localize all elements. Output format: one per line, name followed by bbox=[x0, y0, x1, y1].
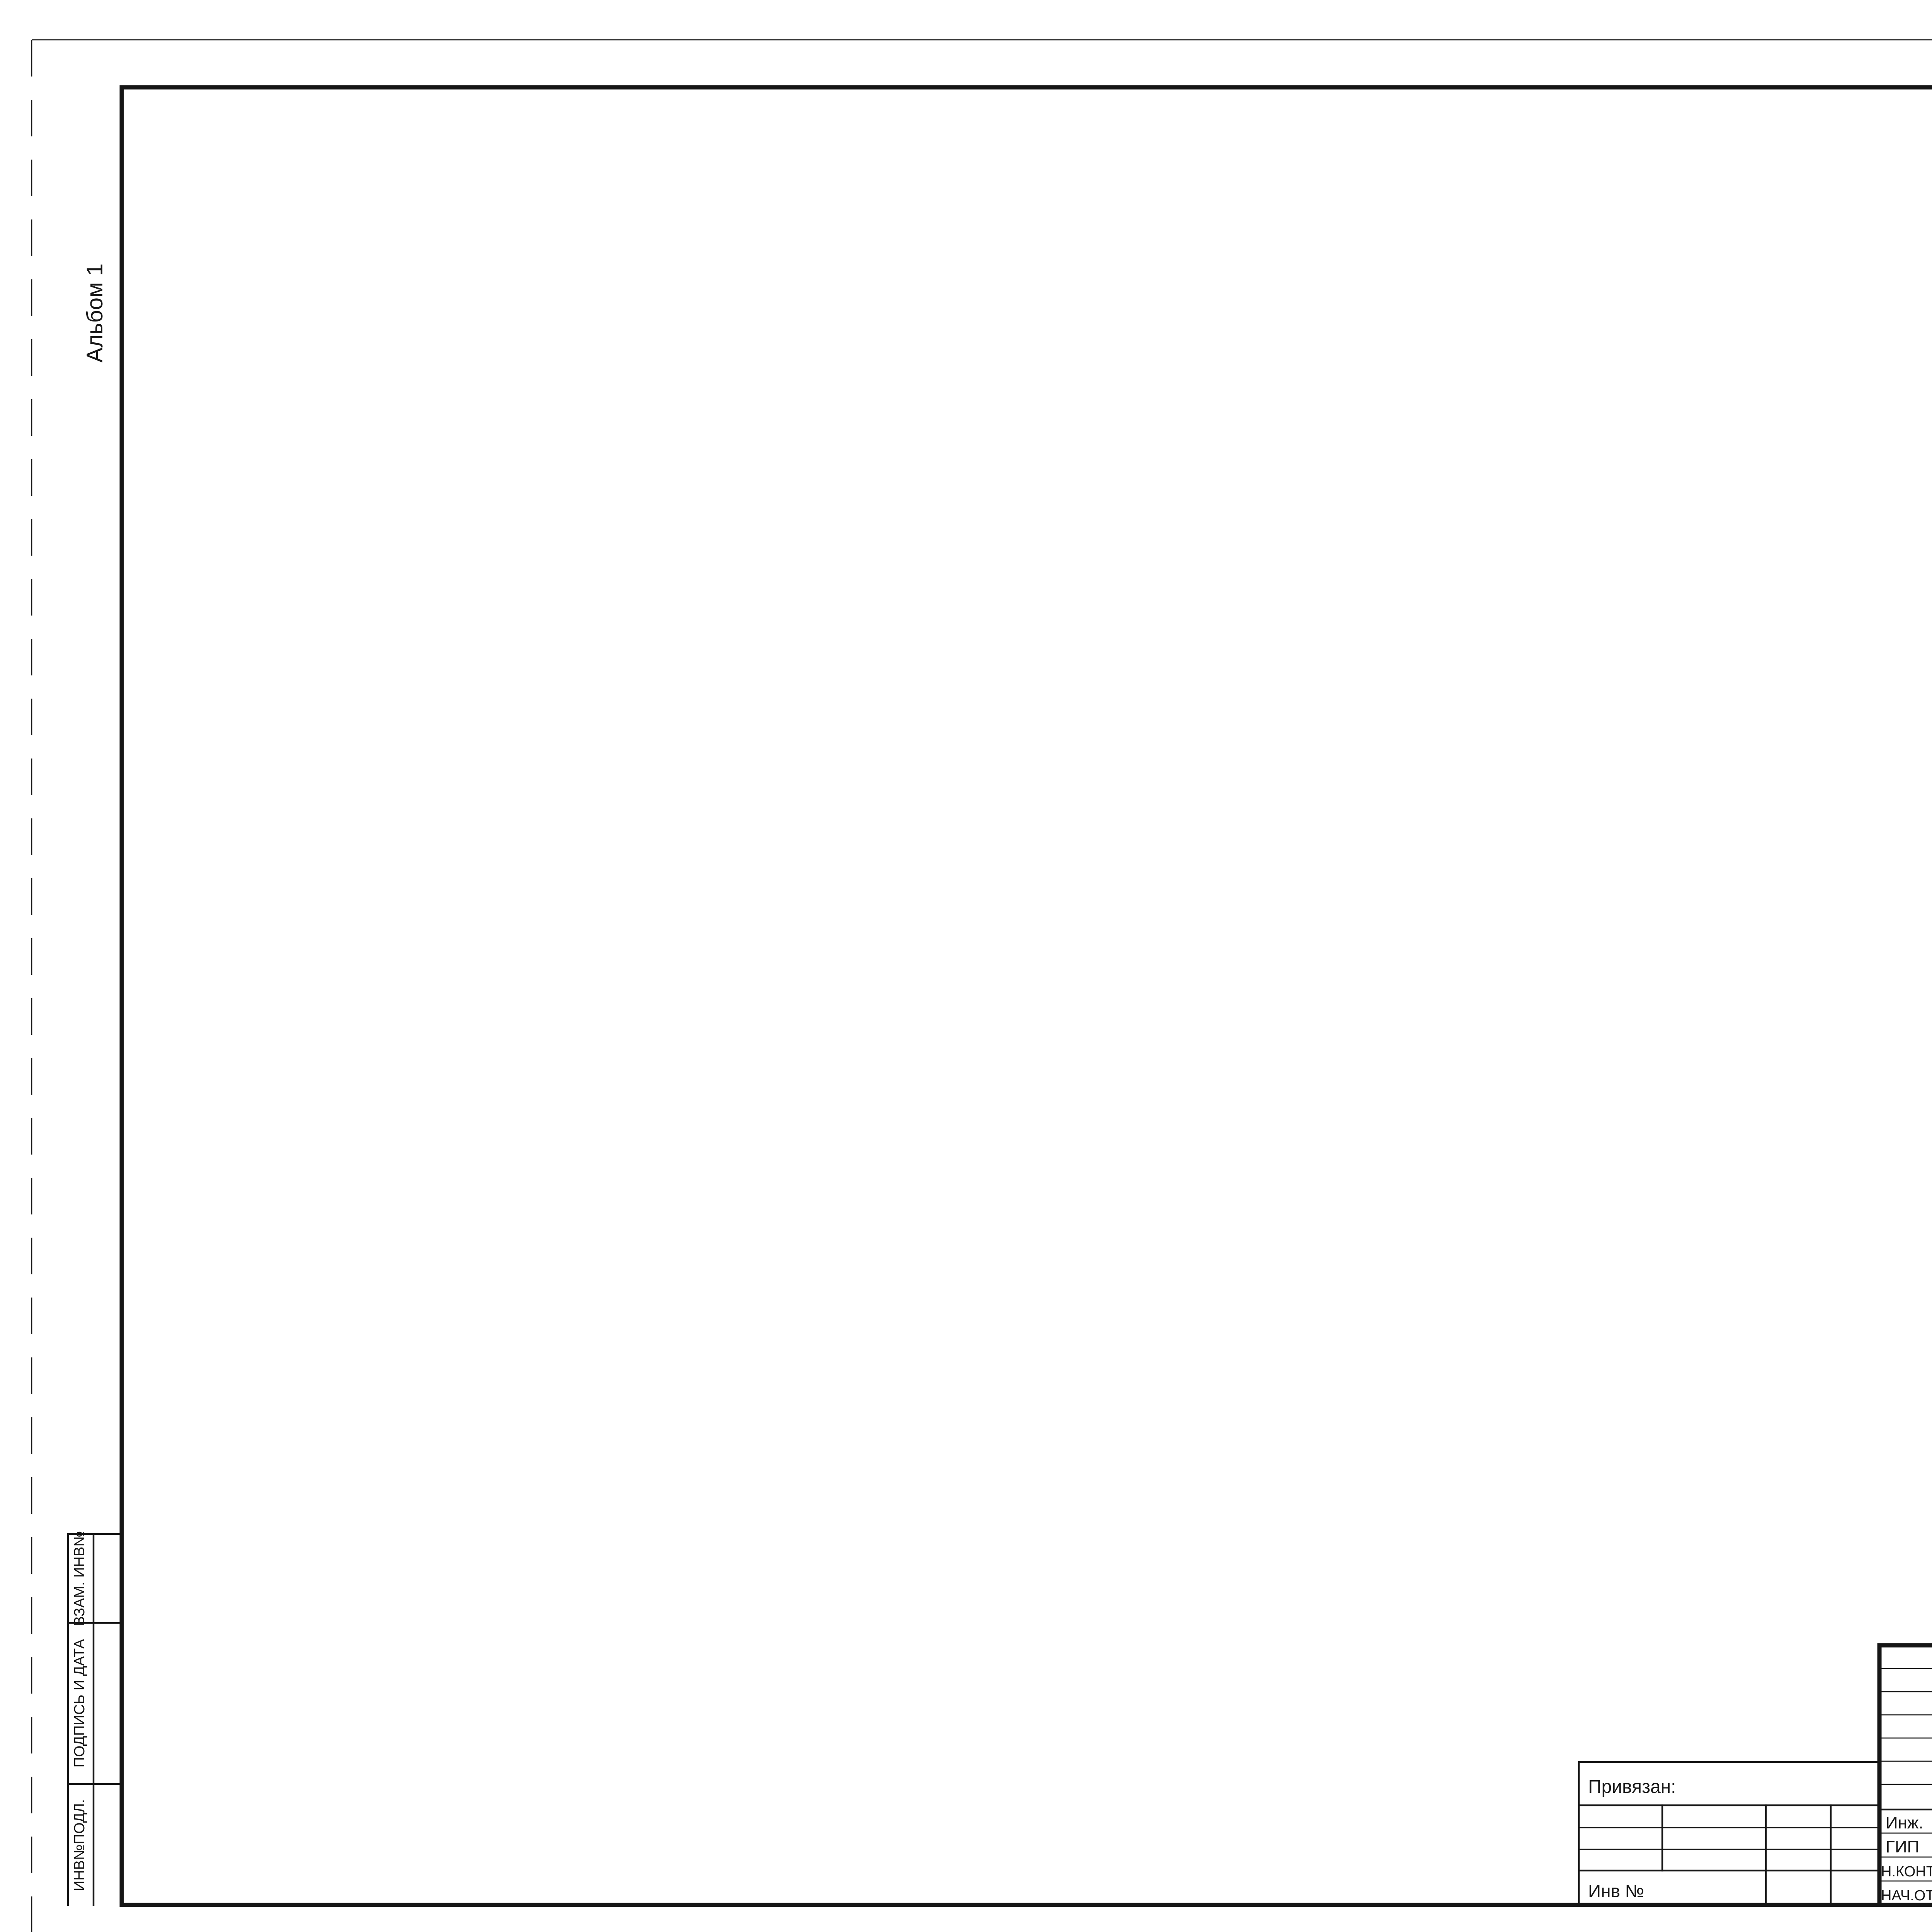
left margin stamp strips bbox=[68, 1531, 122, 1905]
svg-text:ГИП: ГИП bbox=[1886, 1837, 1919, 1856]
svg-text:Н.КОНТР.: Н.КОНТР. bbox=[1881, 1864, 1932, 1880]
privyazan block bbox=[1579, 1762, 1879, 1905]
svg-text:Привязан:: Привязан: bbox=[1588, 1777, 1676, 1797]
svg-text:Альбом 1: Альбом 1 bbox=[82, 264, 107, 362]
title block outer bbox=[1879, 1645, 1932, 1905]
svg-text:ИНВ№ПОДЛ.: ИНВ№ПОДЛ. bbox=[71, 1799, 88, 1891]
svg-text:Инж.: Инж. bbox=[1886, 1813, 1923, 1832]
svg-text:Инв №: Инв № bbox=[1588, 1881, 1644, 1901]
svg-text:ПОДПИСЬ И ДАТА: ПОДПИСЬ И ДАТА bbox=[71, 1639, 88, 1767]
svg-text:НАЧ.ОТЭП: НАЧ.ОТЭП bbox=[1881, 1888, 1932, 1904]
signature table grid bbox=[1879, 1645, 1932, 1905]
album label bbox=[82, 264, 107, 362]
signature rows text bbox=[1881, 1813, 1932, 1904]
svg-text:ВЗАМ. ИНВ№: ВЗАМ. ИНВ№ bbox=[71, 1531, 88, 1626]
